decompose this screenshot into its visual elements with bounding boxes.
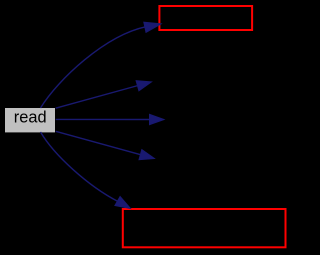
wire edge1 read to top node <box>41 27 147 108</box>
arrowhead edge5 <box>115 197 131 209</box>
node read <box>5 108 55 132</box>
arrowhead edge2 <box>136 81 151 91</box>
arrowhead edge4 <box>139 150 154 160</box>
wire edge5 read to bottom node <box>41 132 119 202</box>
arrowhead edge3 <box>150 114 165 124</box>
wire edge3 <box>56 118 151 120</box>
arrowhead edge1 <box>144 22 161 32</box>
node bottom red box <box>123 209 286 247</box>
svg-text:read: read <box>14 109 47 127</box>
node top red box <box>159 6 252 30</box>
wire edge4 <box>56 131 147 156</box>
wire edge2 <box>56 84 144 108</box>
